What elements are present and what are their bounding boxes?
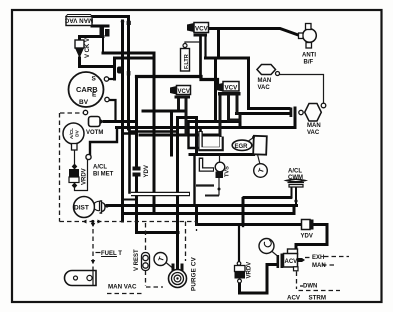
svg-text:EGR: EGR: [235, 144, 249, 150]
svg-text:EXH: EXH: [312, 255, 324, 261]
svg-text:MAN VAC: MAN VAC: [108, 284, 137, 291]
svg-text:VCV: VCV: [195, 26, 209, 33]
svg-text:MAN: MAN: [307, 123, 321, 129]
svg-text:VAC: VAC: [307, 130, 320, 136]
svg-text:TVS: TVS: [225, 166, 231, 177]
svg-text:VRDV: VRDV: [82, 168, 88, 185]
svg-text:BV: BV: [79, 99, 89, 106]
svg-text:BI MET: BI MET: [93, 172, 114, 178]
svg-text:ACV: ACV: [287, 295, 301, 302]
svg-text:VCV: VCV: [225, 85, 239, 92]
svg-text:ANTI: ANTI: [302, 53, 316, 59]
svg-text:VOTM: VOTM: [86, 130, 103, 136]
svg-text:VRDV: VRDV: [247, 262, 253, 279]
svg-text:MAN: MAN: [312, 263, 326, 269]
svg-text:S: S: [92, 76, 97, 83]
svg-text:MAN: MAN: [258, 78, 272, 84]
svg-text:F.LTR: F.LTR: [184, 54, 190, 69]
svg-text:PURGE CV: PURGE CV: [191, 256, 198, 291]
svg-text:B/F: B/F: [304, 60, 314, 66]
svg-text:STRM: STRM: [309, 295, 327, 302]
svg-text:V REST: V REST: [134, 249, 140, 271]
svg-text:A/CL: A/CL: [288, 169, 302, 175]
svg-text:YDV: YDV: [301, 234, 313, 240]
svg-text:MAN VAC: MAN VAC: [64, 16, 93, 23]
svg-text:VCV: VCV: [178, 89, 190, 95]
svg-text:VAC: VAC: [258, 85, 271, 91]
svg-text:A/CL: A/CL: [69, 128, 75, 139]
svg-text:V CK V: V CK V: [85, 38, 91, 58]
svg-text:DWN: DWN: [303, 284, 317, 290]
svg-text:DV: DV: [74, 129, 80, 136]
svg-text:ACV: ACV: [285, 259, 298, 265]
svg-text:YDV: YDV: [144, 165, 150, 177]
svg-text:DIST: DIST: [74, 205, 89, 212]
svg-text:A/CL: A/CL: [93, 165, 107, 171]
svg-text:E: E: [92, 92, 97, 99]
